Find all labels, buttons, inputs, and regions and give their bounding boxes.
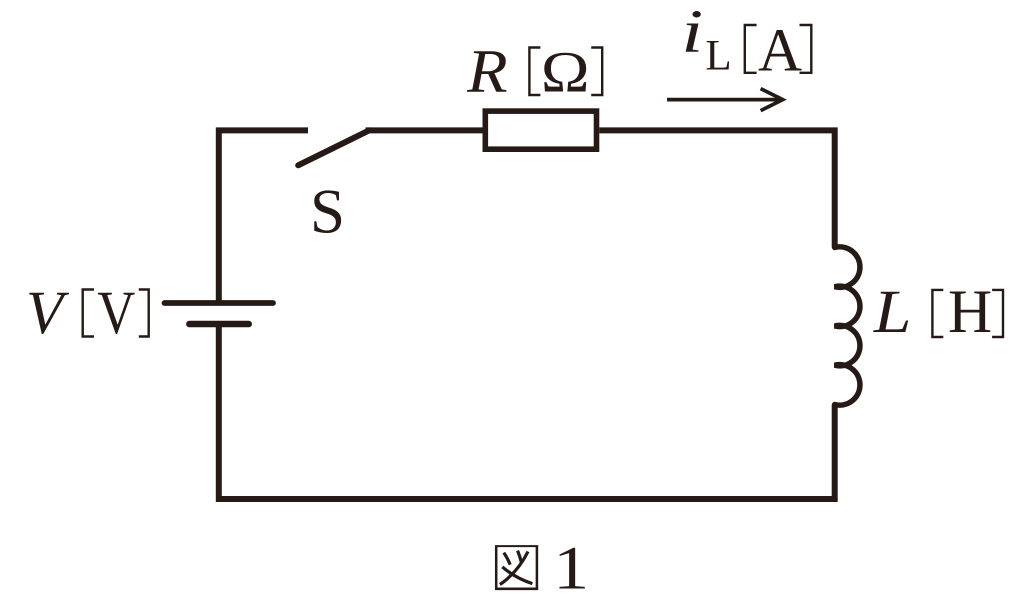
wire: battery positive terminal up left side to top-left corner, across to switch left contact — [219, 130, 308, 303]
label iL [A] (current) — [681, 0, 811, 84]
svg-text:1: 1 — [553, 535, 589, 602]
label R [Ω] — [466, 38, 602, 105]
switch S blade (open) — [298, 130, 369, 165]
svg-text:A: A — [758, 17, 802, 84]
svg-text:L: L — [705, 33, 731, 80]
battery long plate (+) — [165, 300, 274, 306]
svg-text:L: L — [873, 279, 912, 346]
label V [V] — [26, 280, 149, 347]
label L [H] — [873, 279, 1003, 346]
svg-text:S: S — [310, 177, 345, 247]
resistor R body (box) — [485, 111, 596, 149]
svg-text:Ω: Ω — [541, 39, 590, 104]
caption 図1 (Figure 1) — [495, 535, 589, 602]
inductor L coil (4 bumps) — [835, 247, 860, 405]
current arrow iL direction — [667, 89, 783, 111]
battery short plate (−) — [189, 321, 248, 328]
svg-text:V: V — [97, 280, 135, 347]
wire: inductor bottom down right side, across bottom, up to battery negative terminal — [219, 324, 835, 499]
svg-text:V: V — [26, 280, 70, 347]
svg-text:H: H — [948, 279, 992, 346]
svg-text:i: i — [681, 0, 703, 66]
wire: resistor right lead to top-right corner, down to inductor top — [599, 130, 834, 247]
svg-text:R: R — [466, 38, 508, 105]
wire: switch right contact to resistor left lead — [366, 127, 483, 133]
